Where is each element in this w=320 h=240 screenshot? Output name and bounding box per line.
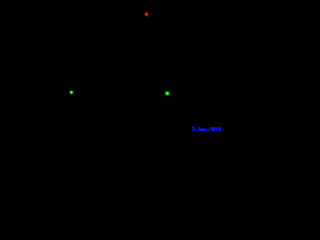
- slash: [208, 127, 211, 132]
- red light glow halo: [142, 11, 151, 19]
- red light bright core: [145, 13, 148, 15]
- green light B bright core: [166, 92, 169, 95]
- red light mid glow: [144, 12, 150, 17]
- 12 block: [211, 127, 214, 131]
- red light faint lower-right smear: [146, 15, 151, 19]
- bold word vertical stroke: [199, 127, 201, 131]
- green light B halo: [164, 90, 170, 97]
- X glyph: [192, 127, 196, 131]
- blue caption text bottom right: [0, 0, 225, 135]
- green light A bright core: [70, 91, 73, 94]
- green light A halo: [68, 89, 74, 96]
- bold word bar: [200, 129, 207, 132]
- period: [196, 130, 197, 131]
- W glyph: [215, 127, 217, 131]
